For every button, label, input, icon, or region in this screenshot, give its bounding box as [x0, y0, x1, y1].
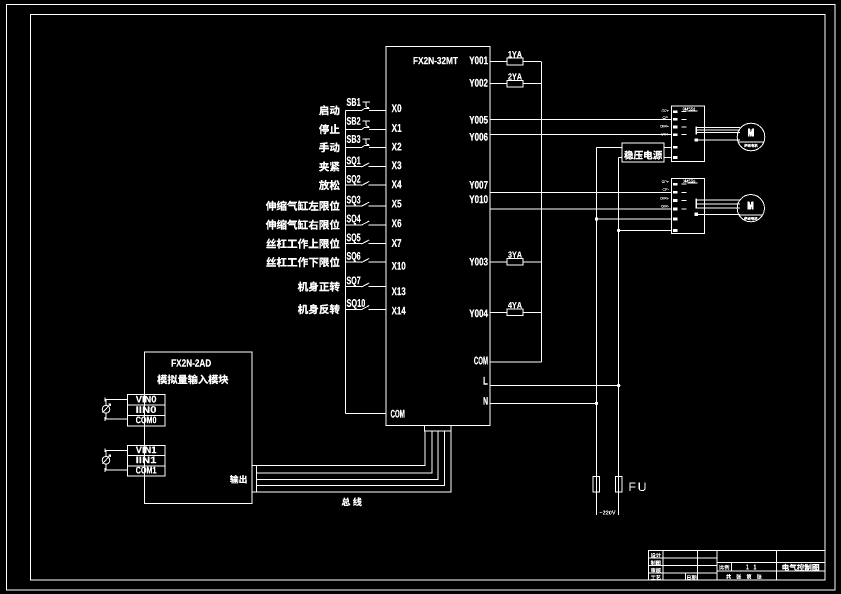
PLC output pin label Y005 [469, 116, 488, 124]
PLC expansion bus connector [425, 426, 452, 432]
input description label 手动 [319, 142, 339, 152]
driver U3 terminal label CP- [663, 188, 669, 191]
label FU [630, 482, 646, 491]
driver U2 terminal label CP+ [662, 110, 669, 113]
switch SQ7 for input X13 [345, 286, 362, 288]
driver U3 model label [683, 180, 696, 183]
title block row label 审核 [651, 568, 661, 573]
PLC output pin label Y007 [469, 181, 487, 189]
bus wire 3 [256, 431, 438, 479]
bus wire 1 [256, 431, 425, 465]
input description label 机身反转 [298, 304, 340, 314]
wire L terminal [490, 385, 619, 387]
title block scale value 1:1 [746, 565, 748, 570]
wire N terminal [490, 402, 597, 404]
PLC input pin label X5 [392, 200, 402, 208]
switch SQ6 for input X10 [345, 261, 362, 263]
switch SQ10 for input X14 [345, 308, 362, 310]
power rail wire B [618, 158, 620, 515]
stepper driver U2 box [672, 106, 705, 161]
PLC output pin label N [484, 397, 488, 405]
PLC label FX2N-32MT [414, 57, 458, 64]
PLC input pin label X10 [392, 262, 406, 270]
PLC input pin label X2 [392, 143, 402, 151]
input description label 停止 [319, 124, 340, 134]
PLC output pin label Y002 [469, 79, 487, 87]
input description label 伸缩气缸右限位 [266, 220, 340, 230]
wire Y005 to driver 1 [490, 118, 672, 120]
label SQ3 [347, 196, 361, 206]
PLC output pin label Y006 [469, 133, 487, 141]
driver U3 motor phase wire 1 [697, 199, 740, 201]
stepper motor M1 [737, 123, 765, 151]
terminal label VIN1 [136, 447, 156, 454]
title block grid [649, 550, 825, 580]
input description label 机身正转 [298, 282, 340, 292]
switch SQ4 for input X6 [345, 224, 362, 226]
driver U3 output pin [695, 213, 698, 216]
driver U2 pin 5 [673, 146, 677, 149]
PLC input pin label X6 [392, 219, 402, 227]
PLC output pin label Y004 [469, 309, 488, 317]
wire Y006 to driver 1 [490, 134, 672, 136]
driver U3 pin 5 [673, 218, 677, 221]
junction dot L rail [617, 384, 620, 387]
driver U2 output pin [695, 138, 698, 141]
PLC output pin label Y001 [469, 56, 488, 64]
terminal label VIN0 [136, 396, 156, 403]
input description label 丝杠工作上限位 [266, 238, 339, 248]
input description label 伸缩气缸左限位 [266, 201, 340, 211]
label 输出 [230, 475, 247, 483]
motor M1 chord line [738, 141, 764, 143]
PLC output pin label Y010 [469, 195, 487, 203]
switch SB3 for input X2 [345, 146, 362, 148]
driver U2 motor phase wire 3 [697, 132, 740, 134]
solenoid coil 2YA [490, 83, 507, 85]
junction dot rail A to driver 2 [595, 217, 598, 220]
solenoid coil 4YA [490, 311, 507, 313]
PLC input pin label X0 [392, 104, 402, 112]
label 模拟量输入模块 [157, 375, 228, 385]
driver U2 pin 3 [673, 126, 677, 129]
PLC input pin label X13 [392, 287, 406, 295]
driver U2 pin 4 [673, 133, 677, 136]
input description label 启动 [319, 105, 339, 115]
stepper driver U3 box [672, 178, 705, 233]
bus wire 2 [256, 431, 431, 473]
PLC input pin label X3 [392, 161, 402, 169]
motor M2 chord line [739, 214, 763, 216]
switch SB2 for input X1 [345, 128, 362, 130]
driver U2 motor phase wire 2 [697, 129, 740, 131]
sensor B1 circle [102, 406, 110, 414]
label SQ1 [347, 157, 361, 167]
power rail B to supply wire [619, 157, 623, 159]
driver U2 output bracket [695, 126, 697, 134]
PLC output pin label Y003 [469, 258, 487, 266]
sensor B1 bottom wire [105, 418, 127, 420]
driver U3 pin 6 [673, 229, 677, 232]
wire rail B to driver 2 pin [619, 230, 672, 232]
driver U2 terminal label CP- [663, 116, 669, 119]
power rail wire A [596, 147, 598, 514]
stepper motor M2 [737, 195, 764, 222]
driver U2 terminal label DIR- [661, 133, 668, 136]
title block label 日期 [687, 575, 696, 580]
label SQ2 [347, 175, 361, 185]
solenoid coil 1YA [490, 61, 507, 63]
terminal block group 1 [127, 445, 165, 476]
power rail A to supply wire [597, 146, 623, 148]
driver U3 pin 3 [673, 199, 677, 202]
PLC input pin label X1 [392, 124, 402, 132]
driver U3 terminal label DIR- [661, 205, 668, 208]
bus wire 5 [256, 431, 450, 492]
driver U3 pin 2 [673, 191, 677, 194]
driver U2 model label [683, 108, 696, 111]
motor M1 letter [748, 129, 753, 136]
label ~220V supply [600, 511, 616, 515]
wire Y007 to driver 2 [490, 191, 672, 193]
title block row label 设计 [651, 553, 661, 558]
terminal label COM0 [136, 417, 156, 424]
label SQ5 [347, 234, 361, 244]
title block row label 制图 [651, 560, 661, 565]
label 稳压电源 [624, 151, 662, 160]
label SQ4 [347, 215, 361, 225]
PLC output pin label COM [474, 357, 488, 365]
switch SQ5 for input X7 [345, 243, 362, 245]
input description label 夹紧 [319, 162, 339, 172]
PLC COM output wire [490, 361, 541, 363]
terminal label IIN1 [137, 457, 157, 464]
title block drawing title 电气控制图 [782, 564, 819, 571]
label SB1 [347, 98, 361, 106]
terminal label COM1 [136, 467, 156, 474]
bus wire 4 [256, 431, 444, 486]
module bus connector [252, 465, 257, 492]
driver U3 motor phase wire 2 [697, 203, 740, 205]
input common bus wire [344, 110, 346, 413]
label FX2N-2AD [172, 359, 211, 366]
PLC input pin label X14 [392, 307, 406, 315]
driver U3 motor phase wire 3 [697, 207, 740, 209]
wire Y010 to driver 2 [490, 208, 672, 210]
supply to driver 1 wire b [664, 157, 672, 159]
switch SQ2 for input X4 [345, 184, 362, 186]
driver U3 pin 4 [673, 208, 677, 211]
switch SQ3 for input X5 [345, 205, 362, 207]
sensor B2 circle [102, 456, 110, 464]
fuse FU on rail A [593, 476, 599, 492]
driver U3 pin 1 [673, 183, 677, 186]
label 总线 [342, 498, 362, 507]
motor M1 label 步进电机 [744, 144, 757, 147]
driver U2 pin 1 [673, 110, 677, 113]
supply to driver 1 wire a [664, 146, 672, 148]
PLC input pin label X7 [392, 239, 402, 247]
label SQ6 [347, 252, 361, 262]
driver U3 output bracket [695, 199, 697, 209]
solenoid coil 3YA [490, 261, 507, 263]
input description label 放松 [319, 180, 340, 190]
driver U2 pin 6 [673, 156, 677, 159]
PLC output pin label L [484, 377, 488, 385]
motor M2 letter [748, 202, 753, 209]
PLC input pin label X4 [392, 180, 402, 188]
analog module FX2N-2AD box [144, 352, 251, 504]
terminal block group 0 [127, 395, 165, 426]
driver U3 terminal label DIR+ [661, 197, 669, 200]
switch SQ1 for input X3 [345, 166, 362, 168]
title block label 比例 [719, 565, 729, 570]
driver U3 terminal label CP+ [662, 180, 669, 183]
sensor B2 top wire [105, 449, 127, 451]
driver U2 pin 2 [673, 118, 677, 121]
driver U2 terminal label DIR+ [661, 125, 669, 128]
fuse FU on rail B [615, 476, 621, 492]
wire rail A to driver 2 pin [597, 218, 672, 220]
junction dot rail B to driver 2 [617, 229, 620, 232]
regulated power supply box 稳压电源 [622, 143, 664, 162]
motor M2 label 步进电机 [744, 217, 757, 220]
input common bus to PLC COM wire [345, 413, 386, 415]
label SQ7 [347, 277, 361, 287]
input description label 丝杠工作下限位 [266, 257, 339, 267]
coil common bus wire [540, 62, 542, 362]
terminal label IIN0 [137, 406, 157, 413]
driver U2 motor phase wire 1 [697, 127, 740, 129]
label SQ10 [347, 299, 365, 309]
PLC U1 FX2N-32MT box [386, 47, 490, 426]
PLC COM input pin label [391, 410, 405, 418]
title block sheet label 共 张 第 张 [726, 574, 762, 579]
sensor B2 bottom wire [105, 469, 127, 471]
label SB2 [347, 117, 361, 125]
sensor B1 top wire [105, 398, 127, 400]
title block row label 工艺 [651, 575, 661, 580]
switch SB1 for input X0 [345, 109, 362, 111]
junction dot N rail [595, 402, 598, 405]
label SB3 [347, 135, 361, 143]
